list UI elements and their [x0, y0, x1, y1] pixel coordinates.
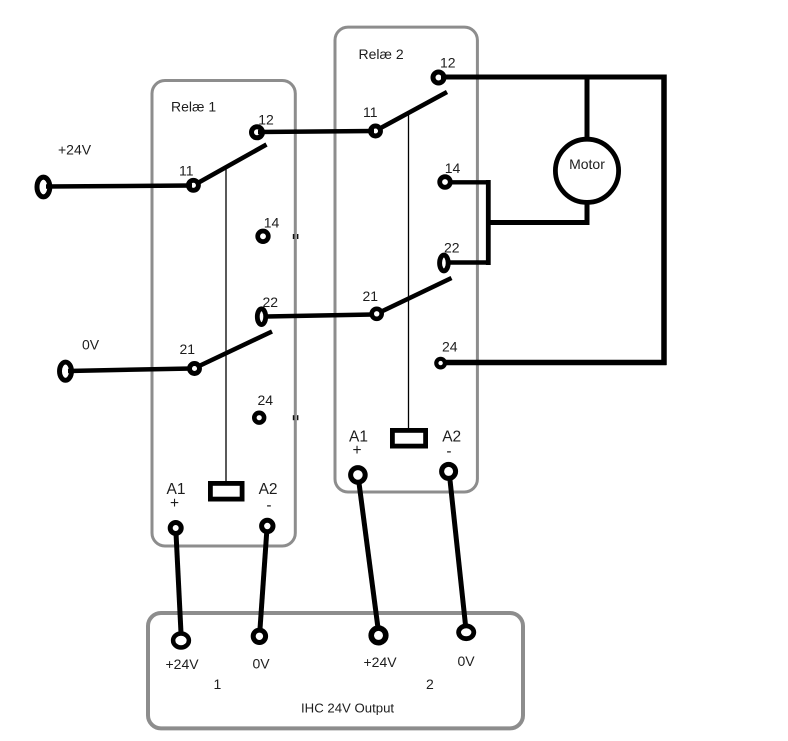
IHC output module box: [148, 613, 523, 728]
svg-text:12: 12: [440, 55, 456, 71]
svg-text:Relæ 2: Relæ 2: [359, 46, 404, 62]
svg-text:11: 11: [363, 104, 378, 120]
svg-text:24: 24: [442, 339, 458, 355]
terminal K1 pin 21: [190, 364, 200, 374]
terminal K2 pin 11: [371, 126, 381, 136]
svg-text:12: 12: [258, 112, 274, 128]
terminal K1 pin 14: [258, 231, 269, 242]
terminal K1 A2: [262, 520, 273, 531]
terminal K2 pin 21: [372, 309, 382, 319]
terminal K2 A2: [442, 464, 456, 478]
svg-text:A2: A2: [442, 429, 461, 446]
svg-text:+24V: +24V: [166, 656, 200, 672]
terminal K2 pin 22: [440, 255, 449, 271]
svg-text:-: -: [266, 497, 271, 514]
wire K2 pin 22 to bracket: [449, 260, 491, 265]
svg-text:1: 1: [214, 676, 222, 692]
terminal +24V input: [37, 177, 50, 197]
tick mark on K1 right edge (14 level): [293, 234, 299, 239]
svg-text:21: 21: [363, 288, 379, 304]
wire +24V input to K1 pin 11: [46, 186, 192, 187]
terminal K2 pin 12: [433, 72, 444, 83]
terminal K1 pin 12: [252, 127, 263, 138]
svg-text:14: 14: [445, 160, 461, 176]
coil K2: [392, 430, 425, 446]
terminal K2 A1: [351, 468, 366, 483]
tick mark on K1 right edge (24 level): [293, 415, 299, 420]
wire K2 A1 to IHC +24V #2: [359, 483, 378, 628]
wire right bus vertical: [661, 75, 667, 366]
wire K1 A1 to IHC +24V #1: [176, 533, 181, 633]
svg-text:0V: 0V: [458, 653, 476, 669]
svg-text:22: 22: [263, 294, 279, 310]
terminal K1 pin 22: [257, 309, 265, 325]
svg-text:24: 24: [258, 392, 274, 408]
terminal IHC 0V #1: [253, 630, 265, 642]
svg-text:+24V: +24V: [364, 654, 398, 670]
svg-text:+: +: [170, 495, 179, 512]
wire motor bottom to bracket: [486, 220, 587, 225]
svg-text:22: 22: [444, 240, 460, 256]
terminal IHC 0V #2: [459, 626, 474, 639]
wire K1 A2 to IHC 0V #1: [260, 531, 267, 629]
wire right bus to K2 pin 24: [445, 360, 667, 366]
svg-text:A2: A2: [259, 481, 278, 498]
svg-text:Motor: Motor: [569, 156, 605, 172]
terminal K1 pin 24: [254, 413, 264, 423]
motor M1: [555, 139, 618, 202]
terminal IHC +24V #1: [173, 634, 189, 648]
switch arm K2 21-22: [380, 278, 452, 313]
switch arm K2 11-12: [378, 92, 447, 130]
wire bracket vertical 14-22: [486, 180, 491, 265]
wire K2 pin 14 to bracket: [448, 180, 491, 184]
svg-text:11: 11: [179, 163, 194, 179]
switch arm K1 21-22: [197, 332, 272, 368]
wire motor top lead: [585, 77, 590, 140]
terminal K1 A1: [170, 523, 181, 534]
wire K1 pin 12 to K2 pin 11: [258, 131, 374, 132]
wire K2 A2 to IHC 0V #2: [450, 480, 466, 625]
actuator link K2: [408, 113, 410, 430]
coil K1: [210, 483, 242, 499]
svg-text:Relæ 1: Relæ 1: [171, 99, 216, 115]
terminal K1 pin 11: [188, 180, 198, 190]
svg-text:21: 21: [180, 341, 196, 357]
terminal K2 pin 24: [436, 359, 445, 368]
svg-text:0V: 0V: [82, 337, 100, 353]
terminal IHC +24V #2: [371, 628, 386, 643]
svg-text:+24V: +24V: [58, 142, 92, 158]
terminal K2 pin 14: [440, 177, 451, 188]
svg-text:2: 2: [426, 676, 434, 692]
wire motor bottom lead: [585, 203, 590, 226]
svg-text:-: -: [446, 443, 451, 460]
relay box K2 (Relæ 2): [335, 27, 477, 492]
svg-text:IHC 24V Output: IHC 24V Output: [301, 701, 394, 716]
wire 0V input to K1 pin 21: [68, 369, 192, 372]
wire K2 pin 12 to right bus (top): [441, 75, 667, 80]
switch arm K1 11-12: [196, 145, 267, 185]
wire K1 pin 22 to K2 pin 21: [266, 315, 373, 317]
terminal 0V input: [60, 362, 72, 380]
actuator link K1: [225, 167, 227, 482]
svg-text:14: 14: [264, 215, 280, 231]
svg-text:0V: 0V: [253, 656, 271, 672]
svg-text:+: +: [352, 442, 361, 459]
relay box K1 (Relæ 1): [152, 81, 295, 547]
